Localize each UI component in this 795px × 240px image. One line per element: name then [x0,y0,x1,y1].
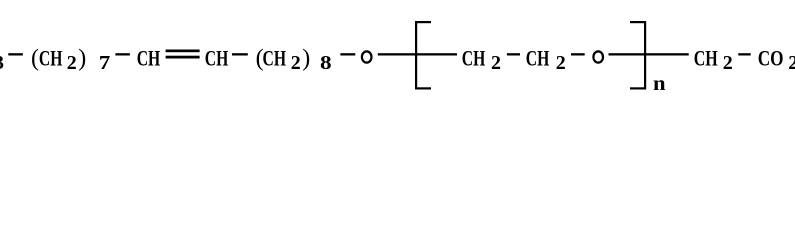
right bracket bottom arm [630,87,646,89]
svg-text:CH: CH [39,46,63,71]
atom O in repeat unit [593,51,603,62]
bond CH2-O in repeat unit [571,53,585,55]
svg-text:CH: CH [694,46,718,71]
svg-text:CO: CO [758,46,784,71]
svg-text:3: 3 [0,52,4,74]
svg-text:): ) [78,46,86,72]
svg-text:2: 2 [788,52,795,74]
svg-text:CH: CH [137,46,161,71]
double bond CH=CH upper line [166,50,200,53]
svg-text:CH: CH [263,46,287,71]
svg-text:(: ( [31,46,39,72]
atom O (ether) [362,51,372,62]
double bond CH=CH lower line [166,56,200,59]
bond CH2-CO2 [738,53,750,55]
bond (CH2)8-O [340,53,355,55]
bond CH3-(CH2)7 [8,53,23,55]
right bracket vertical [644,21,646,90]
svg-text:2: 2 [491,52,501,74]
svg-text:7: 7 [99,52,110,74]
bond (CH2)7-CH [115,53,129,55]
bond O to CH2 (crosses right bracket) [609,53,689,55]
bond O to repeat unit (crosses left bracket) [378,53,457,55]
svg-text:2: 2 [556,52,566,74]
bond CH2-CH2 [507,53,520,55]
svg-text:n: n [653,73,666,95]
left bracket top arm [415,21,431,23]
svg-text:2: 2 [291,52,301,74]
left bracket vertical [415,21,417,90]
svg-text:CH: CH [205,46,229,71]
left bracket bottom arm [415,87,431,89]
right bracket top arm [630,21,646,23]
svg-text:CH: CH [526,46,550,71]
bond CH-(CH2)8 [232,53,248,55]
svg-text:2: 2 [723,52,733,74]
svg-text:8: 8 [320,52,332,74]
svg-text:CH: CH [462,46,486,71]
svg-text:2: 2 [67,52,77,74]
svg-text:): ) [302,46,310,72]
